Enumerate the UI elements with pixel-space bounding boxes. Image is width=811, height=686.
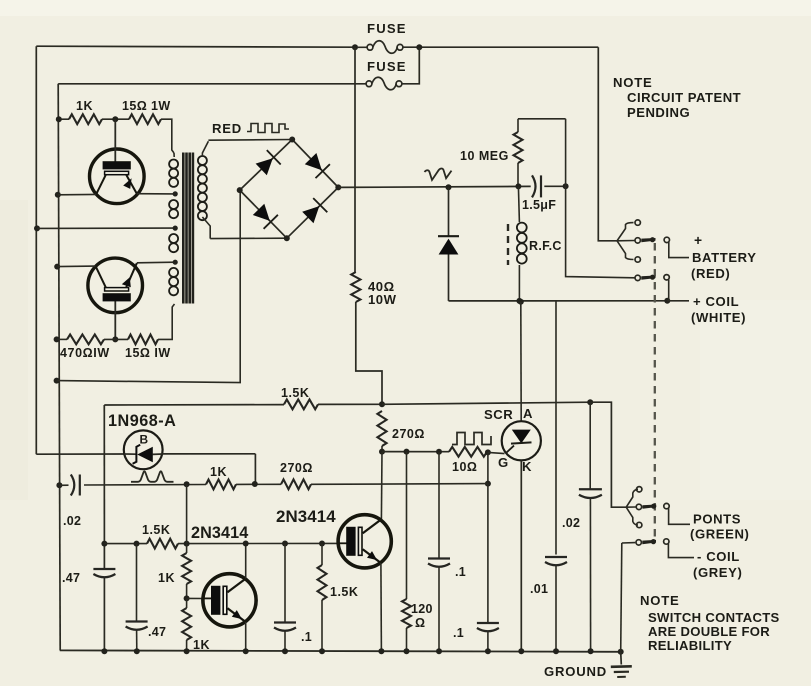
node Q3 collector (243, 541, 249, 547)
resistor 15ohm 1W (bottom) (128, 335, 158, 345)
diode D5 (clamp, pointing up) (448, 187, 450, 236)
wire Q1 right electrode to tap1 (137, 193, 175, 195)
node tap2 (173, 226, 178, 231)
wire secondary top to bridge top (208, 139, 292, 142)
wire HV line bridge to 1.5uF cap (338, 186, 530, 187)
switch S1b left terminal (635, 275, 640, 280)
svg-text:.1: .1 (455, 565, 466, 579)
resistor 270ohm vertical (377, 411, 386, 446)
svg-text:10Ω: 10Ω (452, 460, 477, 474)
dashed switch gang linkage (654, 243, 656, 538)
svg-text:FUSE: FUSE (367, 21, 407, 36)
sawtooth waveform symbol (zener) (131, 471, 174, 482)
node S1a blade/link (650, 237, 655, 242)
svg-text:G: G (498, 455, 509, 470)
resistor 1K (divider lower) (182, 608, 191, 640)
waveform pulse symbol (RED) (247, 124, 289, 133)
node Q1 base top (112, 116, 118, 122)
svg-text:15Ω 1W: 15Ω 1W (122, 99, 171, 113)
node RFC bottom (516, 298, 522, 304)
node HV/diode junction (446, 184, 452, 190)
node center tap wire on outer frame (34, 225, 40, 231)
node tap3 (173, 260, 178, 265)
node .47b top (134, 541, 140, 547)
svg-text:(GREY): (GREY) (693, 565, 742, 580)
svg-text:K: K (522, 459, 532, 474)
wire bracket right side down to battery contact (565, 119, 567, 187)
node base line left (101, 541, 107, 547)
wire diode to RFC bottom (449, 300, 520, 302)
wire supply to points switch (590, 402, 626, 507)
svg-text:15Ω IW: 15Ω IW (125, 346, 171, 360)
switch S1a fork (617, 223, 634, 241)
node 470ohm row on inner frame (54, 336, 60, 342)
wire left box vertical x=104 (103, 405, 105, 569)
svg-text:GROUND: GROUND (544, 664, 607, 679)
node .02 cap line on inner frame (56, 482, 62, 488)
wire gate line (382, 451, 449, 453)
transistor Q1 oscillator (top) (90, 119, 145, 203)
node divider top (184, 481, 190, 487)
node S1b blade/link (650, 275, 655, 280)
inductor RFC (517, 186, 527, 301)
wire F1 output to right drop (403, 46, 598, 48)
node 120ohm top (404, 449, 410, 455)
capacitor .1 (b) on gate node (487, 452, 489, 483)
resistor 10ohm (449, 447, 487, 457)
terminal S2a right (664, 503, 669, 508)
wire outer frame top (36, 46, 355, 47)
wire SCR anode line (518, 299, 524, 305)
svg-text:FUSE: FUSE (367, 59, 407, 74)
node cap output (563, 183, 569, 189)
node ground rail end (618, 649, 624, 655)
svg-text:Ω: Ω (415, 616, 425, 630)
svg-text:- COIL: - COIL (697, 549, 740, 564)
wire right drop from fuses to battery switch (598, 47, 617, 241)
wire 15ohm to transformer primary top (161, 119, 174, 153)
wire 10MEG top bracket (518, 118, 566, 120)
svg-text:1K: 1K (76, 99, 93, 113)
svg-text:.02: .02 (562, 516, 580, 530)
node S2a blade/link (651, 504, 656, 509)
svg-text:120: 120 (411, 602, 433, 616)
node bridge bottom (284, 235, 290, 241)
wire zener to corner (162, 453, 255, 455)
node S2b blade/link (651, 539, 656, 544)
svg-text:+ COIL: + COIL (693, 294, 739, 309)
node fuse F1 left junction (352, 44, 358, 50)
terminal S2a mid (636, 504, 641, 509)
resistor 120ohm (406, 452, 408, 599)
wire center tap (outer frame to transformer tap2) (37, 227, 175, 229)
svg-text:.1: .1 (301, 630, 312, 644)
resistor 270ohm horizontal (281, 479, 311, 489)
fuse F2 (366, 81, 372, 87)
node bridge left (237, 187, 243, 193)
RFC dashed core (507, 224, 509, 265)
svg-text:RELIABILITY: RELIABILITY (648, 638, 732, 653)
diode bridge D1 (left-top arm) (256, 158, 273, 175)
svg-text:2N3414: 2N3414 (276, 507, 336, 526)
capacitor .01 (545, 556, 567, 558)
node bridge top (289, 137, 295, 143)
svg-text:(WHITE): (WHITE) (691, 310, 746, 325)
wire battery output (669, 242, 689, 258)
svg-text:B: B (140, 433, 149, 447)
ground rail junction dots (101, 648, 107, 654)
svg-text:.47: .47 (148, 625, 166, 639)
svg-text:SWITCH CONTACTS: SWITCH CONTACTS (648, 610, 780, 625)
node 270ohm-h left (252, 481, 258, 487)
wire 10ohm to SCR gate (488, 452, 505, 453)
svg-text:.01: .01 (530, 582, 548, 596)
wire Q4 collector drop (380, 452, 383, 520)
terminal S2b left (636, 540, 641, 545)
svg-text:1.5K: 1.5K (142, 523, 170, 537)
svg-text:CIRCUIT PATENT: CIRCUIT PATENT (627, 90, 741, 105)
resistor 1K (zener row) (206, 480, 236, 490)
capacitor .02 (right) (589, 402, 591, 489)
wire divider riser (186, 484, 188, 543)
node Q2 left line on inner frame (54, 264, 60, 270)
node .1c top (282, 541, 288, 547)
switch S1b blade (641, 276, 655, 280)
transistor Q4 2N3414 (right) (338, 515, 391, 568)
terminal S1a right (664, 237, 669, 242)
wire Q2 left electrode (57, 265, 95, 268)
switch S2a blade (643, 505, 657, 509)
svg-text:270Ω: 270Ω (280, 461, 313, 475)
svg-text:PONTS: PONTS (693, 512, 741, 527)
node tap1 (173, 191, 178, 196)
node Q1 left line on inner frame (55, 192, 61, 198)
wire Q3 base lead (187, 597, 204, 599)
svg-text:NOTE: NOTE (613, 75, 653, 90)
switch S2b blade (642, 540, 656, 544)
resistor 15ohm 1W (top) (129, 114, 161, 124)
svg-text:1.5K: 1.5K (330, 585, 358, 599)
resistor 10 MEG (517, 119, 519, 132)
svg-text:1.5μF: 1.5μF (522, 198, 556, 212)
svg-text:RED: RED (212, 121, 242, 136)
resistor 1.5K (base row) (147, 539, 178, 549)
capacitor .02 (left) (59, 484, 68, 486)
waveform squiggle on HV line (425, 168, 452, 180)
SCR (502, 421, 541, 460)
svg-text:10W: 10W (368, 292, 397, 307)
svg-text:ARE DOUBLE FOR: ARE DOUBLE FOR (648, 624, 770, 639)
resistor 470ohm 1W (57, 338, 67, 340)
svg-text:1K: 1K (210, 465, 227, 479)
zener diode 1N968-A (124, 430, 163, 469)
wire inner frame top (58, 83, 366, 85)
wire Q1 left electrode (58, 193, 96, 195)
waveform pulse symbol (gate) (452, 433, 491, 445)
wire 15ohm to primary bottom (158, 304, 175, 339)
wire secondary bottom to bridge bottom (210, 237, 287, 239)
wire bridge AC return (inner frame to bridge left node) (57, 190, 241, 383)
diode bridge D2 (top-right arm) (305, 153, 322, 170)
wire F2 riser to F1 output (402, 47, 419, 84)
wire Q4 emitter down (380, 563, 383, 652)
svg-text:BATTERY: BATTERY (692, 250, 757, 265)
node .02 top (587, 399, 593, 405)
capacitor .47 (b) (136, 544, 138, 621)
svg-text:SCR: SCR (484, 407, 513, 422)
transformer T1 core (183, 153, 193, 304)
wire inner frame left (58, 84, 60, 651)
wire 40ohm to trigger node (jog) (356, 302, 382, 404)
svg-text:1.5K: 1.5K (281, 386, 309, 400)
wire trigger supply line y=403 (104, 404, 284, 406)
terminal S2a bottom (637, 522, 642, 527)
svg-text:270Ω: 270Ω (392, 427, 425, 441)
node gate line left (379, 449, 385, 455)
svg-text:.02: .02 (63, 514, 81, 528)
svg-text:A: A (523, 406, 533, 421)
wire S2b feed from ground (622, 542, 636, 544)
resistor 1K (divider upper) (182, 553, 191, 584)
resistor 1K (oscillator top) (59, 118, 69, 120)
capacitor 1.5uF (532, 175, 536, 197)
svg-text:PENDING: PENDING (627, 105, 690, 120)
wire outer frame left (35, 46, 37, 454)
bridge rectifier arms (240, 140, 293, 191)
terminal S1a bottom (635, 257, 640, 262)
wire ground rail (60, 650, 621, 651)
wire points output (669, 508, 690, 524)
wire SCR cathode to ground line (520, 460, 522, 651)
node Q3 base (184, 595, 190, 601)
wire -coil output (668, 544, 694, 558)
wire zener row to gate cap node (311, 483, 488, 486)
wire 1K to 15ohm (102, 118, 129, 120)
wire +coil line (519, 300, 667, 302)
capacitor .1 (a) (438, 452, 440, 559)
node bridge right (335, 184, 341, 190)
ground symbol (611, 652, 632, 677)
switch S2a fork (626, 489, 638, 507)
svg-text:1N968-A: 1N968-A (108, 412, 176, 430)
wire Q3 collector up to base line (245, 544, 247, 579)
node .1 cap a top (436, 449, 442, 455)
wire S1b to +coil node (668, 280, 670, 301)
wire battery feed vertical (fuse input down to 40 ohm) (354, 47, 356, 272)
terminal S1a mid-left (635, 238, 640, 243)
wire Q3 emitter down (245, 622, 247, 652)
diode bridge D3 (left-bottom arm) (253, 204, 270, 221)
wire .01 cap feed from +coil line (555, 301, 557, 554)
terminal S2b right (664, 539, 669, 544)
wire Q2 right electrode to tap3 (137, 261, 175, 264)
node 1.5K-v top (319, 541, 325, 547)
terminal S1b right (664, 275, 669, 280)
svg-text:10 MEG: 10 MEG (460, 149, 509, 163)
fuse F1 (367, 44, 373, 50)
resistor 1.5K vertical (321, 544, 323, 566)
resistor 40ohm 10W (351, 272, 360, 302)
terminal S1a top (635, 220, 640, 225)
svg-text:NOTE: NOTE (640, 593, 680, 608)
svg-text:470ΩIW: 470ΩIW (60, 346, 110, 360)
node inner frame / 1K (56, 116, 62, 122)
transistor Q2 oscillator (bottom) (88, 258, 143, 339)
svg-text:R.F.C: R.F.C (529, 239, 562, 253)
node 270ohm top (379, 401, 385, 407)
node divider mid top (184, 541, 190, 547)
node bridge return on inner frame (54, 378, 60, 384)
node fuse outputs join (416, 44, 422, 50)
diode bridge D4 (bottom-right arm) (302, 206, 319, 223)
capacitor .47 (a) (93, 568, 115, 570)
transistor Q3 2N3414 (left) (203, 574, 256, 627)
svg-text:.1: .1 (453, 626, 464, 640)
wire base bias line y=543 (104, 543, 147, 545)
svg-text:2N3414: 2N3414 (191, 524, 248, 542)
node +coil switch junction (664, 298, 670, 304)
transformer T1 secondary winding (198, 141, 210, 238)
svg-text:1K: 1K (158, 571, 175, 585)
switch S1a blade (641, 238, 655, 242)
terminal S2a top (637, 487, 642, 492)
transformer T1 primary winding (169, 153, 178, 295)
node 10MEG / RFC junction (515, 183, 521, 189)
resistor 1.5K (supply) (284, 400, 318, 410)
svg-text:.47: .47 (62, 571, 80, 585)
svg-text:(RED): (RED) (691, 266, 730, 281)
node gate / .1b junction (485, 449, 491, 455)
svg-text:(GREEN): (GREEN) (690, 527, 749, 542)
capacitor .1 (c) (284, 544, 286, 623)
node Q2 base bottom (112, 336, 118, 342)
svg-text:+: + (694, 233, 702, 248)
wire zener row (36, 453, 124, 455)
